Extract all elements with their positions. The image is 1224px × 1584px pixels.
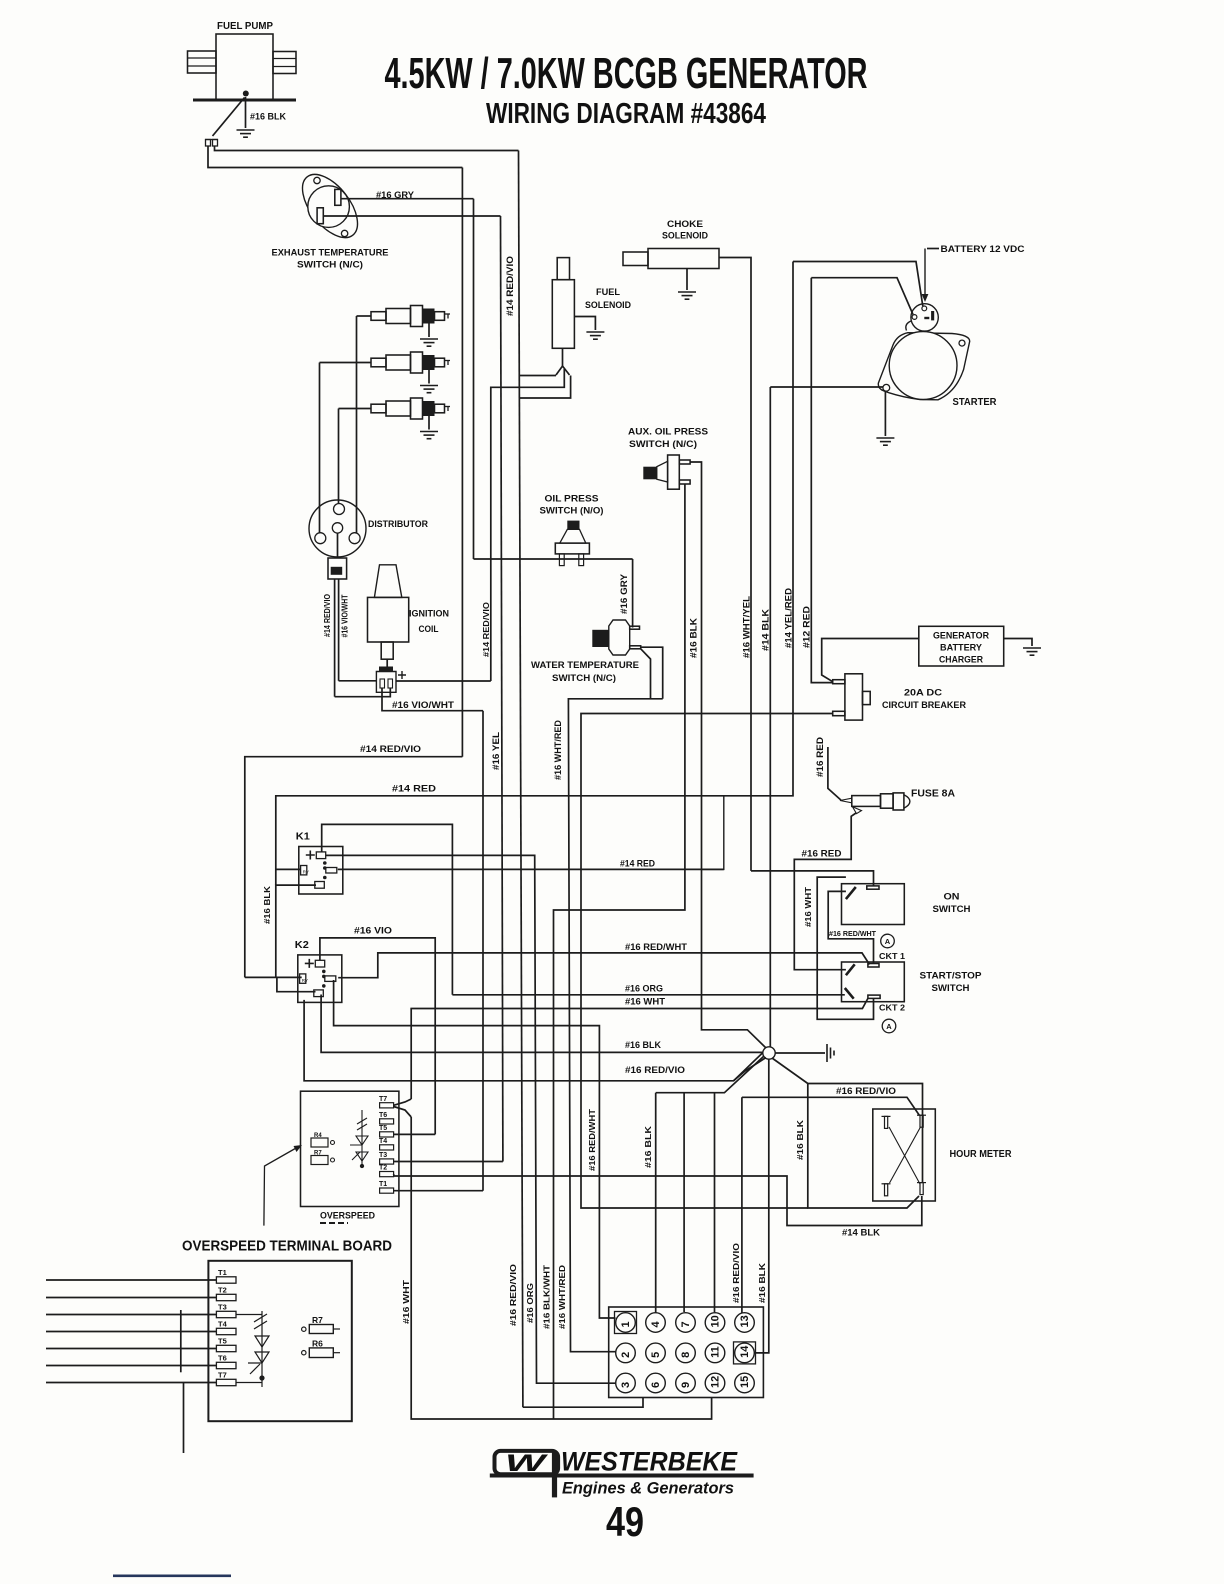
wire #14 BLK loop xyxy=(394,1176,922,1226)
svg-text:5: 5 xyxy=(650,1352,662,1358)
svg-text:T4: T4 xyxy=(379,1138,387,1145)
svg-text:WIRING DIAGRAM #43864: WIRING DIAGRAM #43864 xyxy=(486,98,766,130)
connector plug xyxy=(206,140,211,147)
terminal T5 (overspeed module) xyxy=(380,1132,394,1137)
terminal T1 (terminal board) xyxy=(216,1277,236,1283)
coil terminal connector xyxy=(376,659,406,692)
terminal T6 (terminal board) xyxy=(216,1362,236,1368)
ammeter circle A CKT1 xyxy=(881,934,895,948)
svg-text:#16 YEL: #16 YEL xyxy=(491,732,502,770)
wire plug2 to distributor xyxy=(319,363,321,534)
terminal T4 (terminal board) xyxy=(216,1328,236,1334)
wire #16 WHT/YEL from choke xyxy=(719,258,751,871)
svg-text:EXHAUST TEMPERATURE: EXHAUST TEMPERATURE xyxy=(272,248,389,259)
wire junction to ground xyxy=(775,1052,825,1054)
wire K1 contact long xyxy=(338,868,724,870)
svg-text:#16 WHT/RED: #16 WHT/RED xyxy=(553,720,564,780)
svg-text:4: 4 xyxy=(650,1321,662,1328)
start/stop switch xyxy=(842,962,905,1002)
fuel solenoid xyxy=(552,258,574,349)
svg-text:CIRCUIT BREAKER: CIRCUIT BREAKER xyxy=(882,700,966,711)
wire vertical #16 GRY x473 xyxy=(473,199,475,559)
wire lead T6 xyxy=(46,1365,216,1367)
svg-text:#12 RED: #12 RED xyxy=(802,606,813,648)
wire #14 YEL/RED vertical xyxy=(792,262,794,714)
wire plug1 to distributor xyxy=(356,316,358,533)
wire #14 RED/VIO distributor xyxy=(334,579,336,697)
svg-text:T7: T7 xyxy=(218,1371,227,1380)
svg-text:T3: T3 xyxy=(218,1303,227,1312)
pointer arrow to overspeed module xyxy=(264,1148,297,1226)
connector pin 11 xyxy=(705,1343,725,1363)
svg-text:#16 BLK: #16 BLK xyxy=(250,112,286,122)
wire vertical #14 RED/VIO x519 xyxy=(519,151,523,1408)
svg-text:IGNITION: IGNITION xyxy=(409,609,449,620)
svg-text:OVERSPEED TERMINAL BOARD: OVERSPEED TERMINAL BOARD xyxy=(182,1239,392,1255)
connector pin 7 xyxy=(676,1313,696,1333)
wire spark plug 2 ground lead xyxy=(428,370,430,384)
distributor xyxy=(309,500,366,557)
svg-text:#16 BLK: #16 BLK xyxy=(262,885,272,924)
ground spark plug 3 xyxy=(420,432,438,439)
svg-text:RY: RY xyxy=(303,870,309,875)
wire T2 stub xyxy=(393,1174,395,1176)
Westerbeke logo flag xyxy=(495,1450,559,1497)
wire aux bottom pin #16 BLK/WHT xyxy=(554,484,685,1419)
wire pin 14 stub xyxy=(754,1059,768,1353)
wire K2 plus #16 VIO to T5 xyxy=(320,938,435,1135)
svg-text:#16 ORG: #16 ORG xyxy=(525,1283,535,1323)
wire xyxy=(337,533,339,558)
wire coil plus to fuel solenoid xyxy=(491,369,565,681)
wire vertical x462 xyxy=(461,168,463,757)
overspeed module box xyxy=(301,1091,399,1206)
ground fuel solenoid xyxy=(586,332,604,339)
wire #16 GRY down xyxy=(632,559,634,628)
terminal T2 (terminal board) xyxy=(216,1294,236,1300)
wire T1 xyxy=(394,1190,483,1192)
wire fuel pump to connector xyxy=(213,98,245,137)
wire #16 WHT to pin 12 loop xyxy=(411,1117,711,1419)
svg-text:#16 BLK: #16 BLK xyxy=(643,1125,653,1168)
svg-text:#16 RED/WHT: #16 RED/WHT xyxy=(587,1108,597,1171)
svg-text:T1: T1 xyxy=(379,1181,387,1188)
distributor cap connector xyxy=(328,533,347,579)
svg-text:HOUR METER: HOUR METER xyxy=(950,1149,1013,1160)
svg-text:T7: T7 xyxy=(379,1096,387,1103)
svg-text:AUX. OIL PRESS: AUX. OIL PRESS xyxy=(628,427,708,438)
svg-text:R6: R6 xyxy=(312,1339,323,1349)
wire #14 red/vio top run xyxy=(215,146,519,151)
resistor block 1 (overspeed module) xyxy=(311,1138,328,1147)
spark plug 1 xyxy=(371,306,450,327)
svg-text:#16 WHT: #16 WHT xyxy=(401,1279,411,1324)
fuel pump xyxy=(188,21,297,102)
ground choke solenoid xyxy=(678,292,696,299)
svg-text:FUSE 8A: FUSE 8A xyxy=(911,789,955,800)
ground starter xyxy=(876,438,894,445)
wire #16 RED/WHT inner xyxy=(828,891,873,963)
connector pin 10 xyxy=(705,1313,725,1333)
wire coil connector left xyxy=(339,680,377,682)
svg-text:#16 RED/VIO: #16 RED/VIO xyxy=(836,1086,896,1096)
wire K1 bottom pin to K2 xyxy=(276,885,316,977)
svg-text:OVERSPEED: OVERSPEED xyxy=(320,1211,375,1222)
wire #16 VIO/WHT run xyxy=(382,688,483,711)
svg-text:#14 RED: #14 RED xyxy=(392,784,437,794)
svg-text:SWITCH: SWITCH xyxy=(932,983,970,994)
svg-text:SWITCH (N/C): SWITCH (N/C) xyxy=(552,673,616,684)
svg-text:SWITCH (N/O): SWITCH (N/O) xyxy=(540,506,604,517)
ignition coil U coil xyxy=(368,565,409,659)
ammeter circle A CKT2 xyxy=(882,1019,896,1033)
wire aux top pin to junction xyxy=(690,462,766,1049)
svg-text:#16 RED: #16 RED xyxy=(815,737,826,777)
wire lead T2 xyxy=(46,1297,216,1299)
wire #16 RED/VIO bus to junction xyxy=(304,1000,766,1081)
wire #14 YEL/RED to solenoid xyxy=(793,262,923,307)
svg-text:Engines & Generators: Engines & Generators xyxy=(562,1480,734,1498)
wire fuse to CKT1 #16 RED xyxy=(794,813,856,970)
wire xyxy=(562,348,564,366)
svg-text:CKT 2: CKT 2 xyxy=(879,1003,905,1013)
wire xyxy=(386,659,388,668)
wire breaker bottom long xyxy=(581,714,833,1209)
svg-text:CHARGER: CHARGER xyxy=(939,655,983,665)
svg-text:11: 11 xyxy=(710,1346,722,1358)
connector pin 6 xyxy=(646,1373,666,1393)
diode chain (terminal board) xyxy=(236,1311,269,1387)
wire water temp pin right xyxy=(641,647,663,699)
connector pin 3 xyxy=(616,1373,636,1393)
wire #14 RED bus xyxy=(276,714,793,886)
connector pin 2 xyxy=(616,1343,636,1363)
wire K1 coil left xyxy=(276,868,301,870)
svg-text:CKT 1: CKT 1 xyxy=(879,951,905,961)
svg-text:#16 VIO/WHT: #16 VIO/WHT xyxy=(392,700,455,710)
wire #16 BLK loop left xyxy=(808,1084,919,1209)
svg-text:R4: R4 xyxy=(314,1133,322,1139)
svg-text:49: 49 xyxy=(606,1498,644,1545)
wire T7 up fork xyxy=(394,1099,412,1105)
starter motor xyxy=(878,332,969,400)
svg-text:BATTERY: BATTERY xyxy=(940,643,982,653)
svg-text:10: 10 xyxy=(710,1315,722,1327)
spark plug 3 xyxy=(371,398,450,419)
svg-text:CHOKE: CHOKE xyxy=(667,219,703,230)
wire #16 WHT/RED to pin 2 xyxy=(568,699,662,1352)
wire K2 coil left xyxy=(245,976,302,978)
svg-text:#16 BLK/WHT: #16 BLK/WHT xyxy=(542,1264,552,1329)
svg-text:DISTRIBUTOR: DISTRIBUTOR xyxy=(368,519,428,530)
wire K2 bottom pin jog xyxy=(277,977,316,991)
svg-text:R7: R7 xyxy=(314,1151,322,1157)
wire #16 RED/VIO to pin 13 xyxy=(741,1097,743,1313)
svg-text:T1: T1 xyxy=(218,1268,227,1277)
logo underline xyxy=(490,1474,754,1478)
15-pin connector block xyxy=(609,1307,764,1398)
wire T7 down fork xyxy=(394,1107,412,1118)
wire #12 RED to solenoid xyxy=(811,278,913,315)
relay K2 xyxy=(295,939,342,1003)
svg-text:T4: T4 xyxy=(218,1320,228,1329)
water temperature switch (N/C) xyxy=(592,620,640,655)
wire jog to #14 RED xyxy=(702,796,724,870)
svg-text:K2: K2 xyxy=(295,939,309,951)
svg-text:#16 BLK: #16 BLK xyxy=(795,1119,805,1160)
svg-text:13: 13 xyxy=(739,1315,751,1327)
svg-text:2: 2 xyxy=(620,1352,632,1358)
wire junction diag redvio xyxy=(734,1058,767,1081)
svg-text:T2: T2 xyxy=(218,1286,227,1295)
connector pin 5 xyxy=(646,1343,666,1363)
svg-text:A: A xyxy=(886,1022,892,1031)
svg-text:T5: T5 xyxy=(379,1125,387,1132)
wire #16 BLK bus to junction xyxy=(321,995,763,1053)
svg-text:FUEL PUMP: FUEL PUMP xyxy=(217,21,273,32)
svg-text:#16 RED: #16 RED xyxy=(802,849,843,859)
svg-text:COIL: COIL xyxy=(419,624,439,635)
wire junction to P side loop xyxy=(772,1058,923,1182)
svg-text:#16 VIO/WHT: #16 VIO/WHT xyxy=(341,594,350,637)
svg-text:A: A xyxy=(885,937,891,946)
wire fuel pump to ground xyxy=(245,97,247,128)
wire spark plug 3 ground lead xyxy=(428,416,430,430)
wire choke to ground xyxy=(686,269,688,291)
svg-text:20A DC: 20A DC xyxy=(904,688,942,699)
svg-text:GENERATOR: GENERATOR xyxy=(933,631,989,641)
svg-text:14: 14 xyxy=(739,1345,751,1358)
connector pin 12 xyxy=(705,1373,725,1393)
connector pin 8 xyxy=(676,1343,696,1363)
svg-text:BATTERY 12 VDC: BATTERY 12 VDC xyxy=(941,244,1025,255)
terminal T3 (overspeed module) xyxy=(380,1159,394,1164)
wire charger to ground xyxy=(1004,639,1032,647)
wire lead T3 xyxy=(46,1314,216,1316)
overspeed terminal board box xyxy=(208,1261,351,1421)
svg-text:RY: RY xyxy=(302,978,308,983)
svg-text:4.5KW / 7.0KW BCGB GENERATOR: 4.5KW / 7.0KW BCGB GENERATOR xyxy=(385,49,868,98)
svg-text:T2: T2 xyxy=(379,1165,387,1172)
connector pin 1 xyxy=(615,1312,637,1334)
bottom left mark xyxy=(113,1575,231,1578)
terminal T6 (overspeed module) xyxy=(380,1119,394,1124)
svg-text:12: 12 xyxy=(710,1376,722,1388)
svg-text:START/STOP: START/STOP xyxy=(920,971,983,982)
svg-text:OIL PRESS: OIL PRESS xyxy=(545,494,599,505)
wire T3 xyxy=(394,1161,503,1163)
wire arrow split xyxy=(556,366,570,375)
ground spark plug 1 xyxy=(420,339,438,346)
ground charger xyxy=(1023,648,1041,655)
wire junction diag blk branch xyxy=(656,1056,764,1093)
svg-text:6: 6 xyxy=(650,1382,662,1388)
svg-text:#14 YEL/RED: #14 YEL/RED xyxy=(784,588,795,648)
wire spark plug 2 lead xyxy=(320,362,372,364)
svg-text:#16 BLK: #16 BLK xyxy=(625,1040,661,1050)
junction node xyxy=(763,1047,775,1059)
svg-text:SWITCH: SWITCH xyxy=(933,904,971,915)
svg-text:#16 ORG: #16 ORG xyxy=(625,984,663,994)
wire #16 WHT loop xyxy=(817,877,873,1019)
connector pin 9 xyxy=(676,1373,696,1393)
svg-text:#14 RED/VIO: #14 RED/VIO xyxy=(323,594,332,637)
wire oil press row xyxy=(474,558,633,560)
spark plug 2 xyxy=(371,352,450,373)
wire vertical x503 to T3 xyxy=(501,216,503,1162)
relay K1 xyxy=(296,831,343,895)
wire #12 RED to breaker xyxy=(811,278,832,683)
svg-text:T5: T5 xyxy=(218,1337,227,1346)
wire #16 RED to ON switch xyxy=(751,871,874,886)
svg-text:#16 RED/VIO: #16 RED/VIO xyxy=(731,1243,741,1303)
wire spark plug 1 lead xyxy=(357,315,372,317)
ON switch xyxy=(842,884,905,925)
fuse 8A xyxy=(840,793,910,814)
wire battery tick xyxy=(927,248,939,250)
wire starter ground bolt xyxy=(770,386,883,388)
wire xyxy=(520,376,571,399)
oil press switch (N/O) xyxy=(555,521,589,566)
svg-text:SOLENOID: SOLENOID xyxy=(662,231,708,242)
svg-text:#16 RED/WHT: #16 RED/WHT xyxy=(829,929,876,938)
connector pin 4 xyxy=(646,1313,666,1333)
wire #14 BLK vertical x770 xyxy=(769,387,771,1047)
connector pin 15 xyxy=(735,1373,755,1393)
resistor block 2 (overspeed module) xyxy=(311,1156,328,1165)
svg-text:SOLENOID: SOLENOID xyxy=(585,300,631,311)
svg-text:#16 VIO: #16 VIO xyxy=(354,926,392,936)
svg-text:SWITCH (N/C): SWITCH (N/C) xyxy=(629,439,697,450)
svg-text:#16 WHT/YEL: #16 WHT/YEL xyxy=(742,596,753,658)
wire below board xyxy=(183,1383,185,1454)
wire T5 to #16 VIO xyxy=(394,1133,436,1135)
aux oil press switch (N/C) xyxy=(643,455,690,489)
wire xyxy=(180,1310,182,1372)
terminal T3 (terminal board) xyxy=(216,1311,236,1317)
svg-text:T3: T3 xyxy=(379,1152,387,1159)
svg-text:#16 BLK: #16 BLK xyxy=(757,1262,767,1303)
wire vertical x483 to T1 xyxy=(482,711,484,1191)
wire #16 RED/WHT to pin 1 xyxy=(334,980,616,1318)
svg-text:WATER TEMPERATURE: WATER TEMPERATURE xyxy=(531,660,639,671)
svg-text:#16 BLK: #16 BLK xyxy=(689,618,700,658)
wire spark plug 1 ground lead xyxy=(428,324,430,338)
wire #16 WHT upper xyxy=(410,1009,412,1100)
svg-text:#14 RED/VIO: #14 RED/VIO xyxy=(360,744,421,754)
svg-text:WESTERBEKE: WESTERBEKE xyxy=(561,1447,738,1477)
wire to pin 10 xyxy=(714,1093,716,1312)
svg-text:#16 RED/WHT: #16 RED/WHT xyxy=(625,942,688,952)
svg-text:SWITCH (N/C): SWITCH (N/C) xyxy=(297,259,363,270)
svg-text:#14 RED/VIO: #14 RED/VIO xyxy=(482,602,491,657)
wire charger to breaker xyxy=(822,639,919,682)
diode chain (overspeed module) xyxy=(350,1110,368,1168)
ground spark plug 2 xyxy=(420,386,438,393)
wire exhaust top pin #16 GRY xyxy=(341,198,474,200)
exhaust temperature switch (N/C) xyxy=(292,165,368,247)
terminal T2 (overspeed module) xyxy=(380,1172,394,1177)
wire #14 RED/VIO bus xyxy=(245,757,463,978)
wire plug3 to distributor xyxy=(338,409,340,505)
svg-text:T6: T6 xyxy=(218,1354,227,1363)
terminal T4 (overspeed module) xyxy=(380,1145,394,1150)
svg-text:FUEL: FUEL xyxy=(596,287,620,298)
wire #16 ORG bus xyxy=(452,994,844,996)
wire water temp pin diag xyxy=(641,649,651,699)
svg-text:#16 WHT: #16 WHT xyxy=(803,886,813,927)
wire coil connector plus xyxy=(396,680,491,682)
wire K1 plus to pin 3 #16 ORG xyxy=(326,855,616,1383)
svg-text:R7: R7 xyxy=(312,1315,323,1325)
svg-text:#14 RED: #14 RED xyxy=(620,859,655,869)
svg-text:STARTER: STARTER xyxy=(953,397,998,408)
terminal T5 (terminal board) xyxy=(216,1345,236,1351)
wire lead T1 xyxy=(46,1279,216,1281)
wire lead T4 xyxy=(46,1331,216,1333)
wire #16 BLK to pin 4 xyxy=(655,1093,657,1313)
wire #16 VIO/WHT distributor xyxy=(338,579,340,681)
wire pin 6 loop xyxy=(523,1398,643,1408)
svg-text:K1: K1 xyxy=(296,831,310,843)
wire lead T7 xyxy=(46,1382,216,1384)
svg-text:#14 RED/VIO: #14 RED/VIO xyxy=(505,256,516,316)
svg-text:#16 RED/VIO: #16 RED/VIO xyxy=(508,1264,518,1326)
terminal T7 (terminal board) xyxy=(216,1379,236,1385)
connector pin 13 xyxy=(735,1313,755,1333)
hour meter xyxy=(873,1109,936,1201)
svg-text:#16 WHT: #16 WHT xyxy=(625,997,666,1007)
wire #16 RED/VIO to P pin xyxy=(742,1097,920,1115)
ground fuel pump xyxy=(237,130,255,137)
wire coil connector right pin xyxy=(335,688,391,697)
svg-text:#16 RED/VIO: #16 RED/VIO xyxy=(625,1065,685,1075)
wire spark plug 3 lead xyxy=(339,408,372,410)
svg-text:W: W xyxy=(505,1450,549,1477)
wire K1 plus top loop xyxy=(322,824,453,994)
wire #16 WHT bus xyxy=(410,998,868,1008)
wire to pin 7 xyxy=(683,1093,685,1312)
svg-text:15: 15 xyxy=(739,1376,751,1388)
svg-text:3: 3 xyxy=(620,1382,632,1388)
wire fuel solenoid to ground xyxy=(574,317,595,331)
wire xyxy=(520,375,557,377)
connector pin 14 xyxy=(734,1342,756,1364)
wire #16 RED/WHT bus xyxy=(338,953,869,978)
ground junction (side bars) xyxy=(827,1044,834,1062)
svg-text:8: 8 xyxy=(680,1352,692,1358)
20A DC circuit breaker xyxy=(833,674,871,720)
svg-text:9: 9 xyxy=(680,1382,692,1388)
wire starter to ground xyxy=(884,391,886,436)
svg-text:1: 1 xyxy=(620,1321,632,1327)
wire battery down with arrow xyxy=(924,249,926,297)
svg-text:#16 GRY: #16 GRY xyxy=(619,573,630,614)
svg-text:ON: ON xyxy=(944,892,960,903)
terminal T1 (overspeed module) xyxy=(380,1188,394,1193)
svg-text:#14 BLK: #14 BLK xyxy=(842,1228,881,1238)
wire exhaust bottom pin xyxy=(323,215,500,217)
wire top run 2 xyxy=(208,146,462,168)
generator battery charger xyxy=(919,626,1004,666)
svg-text:7: 7 xyxy=(680,1321,692,1327)
starter solenoid xyxy=(906,304,938,331)
wire lead T5 xyxy=(46,1348,216,1350)
terminal T7 (overspeed module) xyxy=(380,1103,394,1108)
svg-text:#16 WHT/RED: #16 WHT/RED xyxy=(557,1265,567,1329)
choke solenoid xyxy=(623,249,719,269)
svg-text:T6: T6 xyxy=(379,1112,387,1119)
